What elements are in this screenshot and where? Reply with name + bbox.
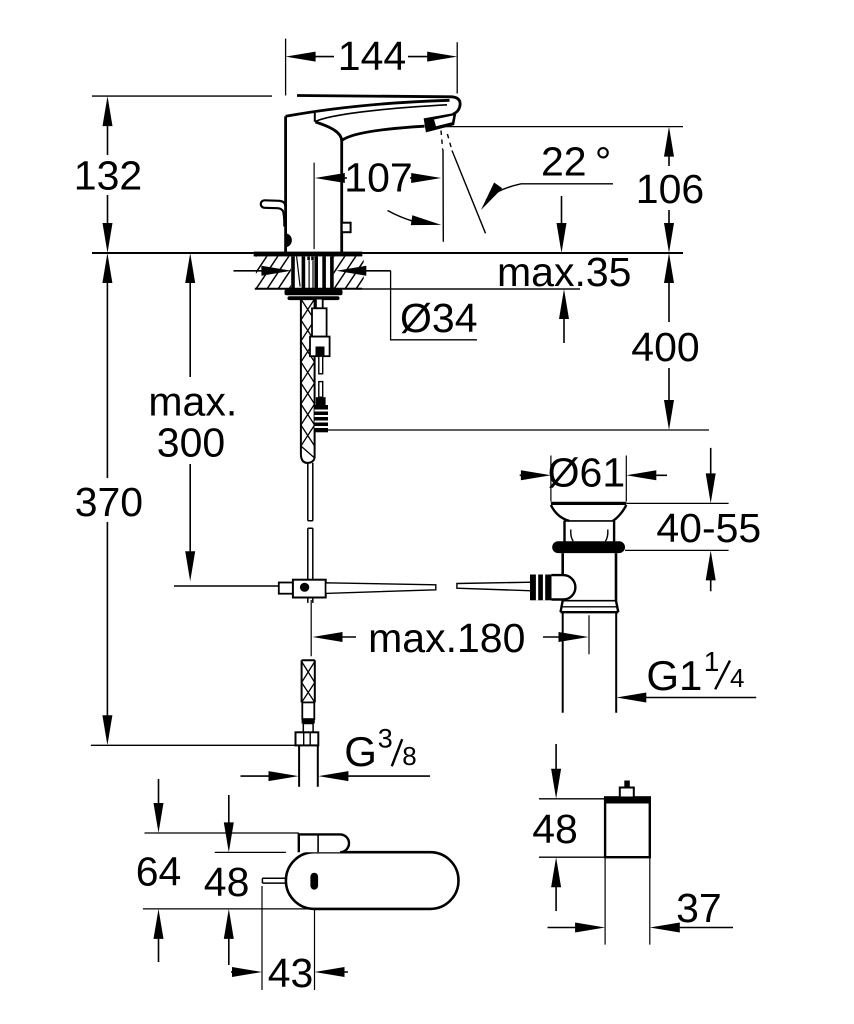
pull rod lower thin sections xyxy=(308,463,313,603)
tailpipe xyxy=(563,612,617,713)
svg-text:4: 4 xyxy=(730,663,744,693)
valve body xyxy=(561,553,619,612)
dimension max.35 xyxy=(356,196,631,343)
dimension 400 xyxy=(327,253,709,430)
dimension 37 xyxy=(548,857,734,944)
dimension 132 xyxy=(74,96,142,253)
svg-text:400: 400 xyxy=(631,324,699,370)
svg-text:144: 144 xyxy=(338,33,406,79)
water stream lines 22deg xyxy=(441,131,486,242)
svg-text:3: 3 xyxy=(378,724,393,754)
svg-text:1: 1 xyxy=(704,646,720,677)
aerator xyxy=(425,114,456,132)
temperature lever xyxy=(261,200,286,226)
spout top reference line xyxy=(92,95,272,97)
dimension 43 xyxy=(231,886,348,996)
upper supply hose crosshatched xyxy=(301,298,315,463)
svg-text:Ø34: Ø34 xyxy=(400,295,478,341)
mounting shank cross-section xyxy=(293,256,332,288)
dimension 48 control unit xyxy=(204,795,286,965)
faucet spout and body xyxy=(286,96,461,254)
dimension 22deg xyxy=(477,139,613,213)
svg-text:106: 106 xyxy=(636,166,704,212)
dimension diameter 34 xyxy=(234,266,478,341)
svg-text:37: 37 xyxy=(676,885,722,931)
lower supply hose G3/8 crosshatched xyxy=(296,660,319,787)
dimension G1 1/4 xyxy=(616,646,756,703)
svg-text:G1: G1 xyxy=(646,652,702,699)
svg-text:8: 8 xyxy=(402,741,416,771)
svg-text:max.: max. xyxy=(148,379,237,425)
side port with linkage entry xyxy=(530,575,575,601)
svg-text:22 °: 22 ° xyxy=(541,139,611,185)
O-ring seal xyxy=(552,541,625,553)
lever pivot dot xyxy=(286,233,292,247)
dimension 64 xyxy=(136,779,320,962)
svg-text:64: 64 xyxy=(136,849,182,895)
svg-text:max.35: max.35 xyxy=(497,249,631,295)
svg-text:40-55: 40-55 xyxy=(656,505,761,551)
control unit housing xyxy=(262,834,458,909)
dimension 48 battery xyxy=(532,744,605,911)
dimension 106 xyxy=(442,127,705,253)
svg-text:48: 48 xyxy=(204,859,250,905)
horizontal linkage rod xyxy=(174,580,532,598)
dimension 370 xyxy=(75,253,296,745)
svg-text:Ø61: Ø61 xyxy=(548,450,626,496)
pop-up waste flange xyxy=(551,503,626,541)
svg-text:370: 370 xyxy=(75,479,143,525)
dimension G3/8 xyxy=(241,724,431,782)
dimension 107 xyxy=(314,155,442,250)
svg-text:300: 300 xyxy=(157,420,225,466)
svg-text:G: G xyxy=(344,728,377,775)
dimension diameter 61 xyxy=(520,450,667,502)
svg-text:132: 132 xyxy=(74,153,142,199)
svg-text:107: 107 xyxy=(344,155,412,201)
svg-text:43: 43 xyxy=(268,950,314,996)
sensor window xyxy=(342,223,351,233)
pop-up pull rod top section xyxy=(310,299,330,433)
svg-text:48: 48 xyxy=(532,806,578,852)
dimension max.300 xyxy=(148,253,237,581)
svg-text:max.180: max.180 xyxy=(368,615,525,661)
dimension 40-55 xyxy=(625,448,761,591)
washer under deck xyxy=(285,290,343,296)
battery box xyxy=(604,781,651,858)
countertop deck with hatching xyxy=(92,252,683,289)
dimension max.180 xyxy=(311,600,589,661)
dimension 144 xyxy=(286,33,458,96)
